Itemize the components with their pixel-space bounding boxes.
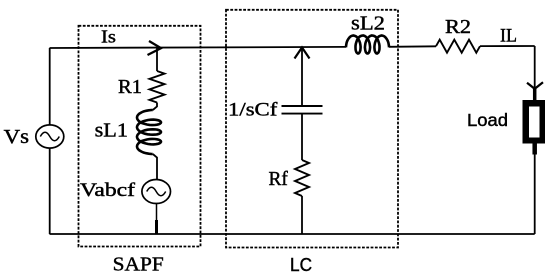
- source Vabcf: [142, 180, 171, 204]
- resistor R2: [436, 40, 480, 53]
- wire R1 to sL1: [153, 103, 157, 111]
- svg-text:LC: LC: [290, 255, 312, 275]
- svg-text:sL1: sL1: [95, 120, 128, 142]
- capacitor 1/sCf plate bottom: [282, 113, 323, 115]
- wire Rf to bottom rail: [301, 196, 303, 234]
- inductor sL1: [137, 110, 161, 154]
- wire sL1 to Vabcf: [153, 154, 157, 180]
- svg-text:IL: IL: [500, 27, 517, 47]
- svg-text:Vabcf: Vabcf: [80, 180, 136, 201]
- wire left rail lower: [49, 148, 51, 234]
- wire top right (R2 to corner): [480, 45, 535, 47]
- wire left rail upper: [49, 48, 51, 125]
- svg-text:SAPF: SAPF: [113, 254, 164, 276]
- dashed box LC: [226, 10, 398, 248]
- wire load to bottom rail: [534, 155, 536, 235]
- source Vs: [36, 125, 64, 148]
- wire right rail down to load: [534, 46, 536, 100]
- load rectangle: [523, 100, 546, 144]
- wire top middle (sL2 to R2): [389, 45, 436, 48]
- svg-text:1/sCf: 1/sCf: [228, 100, 278, 121]
- wire cap top lead: [301, 47, 303, 106]
- svg-text:Vs: Vs: [4, 127, 29, 148]
- svg-text:Rf: Rf: [269, 168, 289, 190]
- wire R1 top lead: [156, 48, 158, 71]
- wire cap to Rf: [301, 114, 303, 160]
- arrow capacitor branch (up, at top wire): [295, 48, 310, 59]
- svg-text:sL2: sL2: [351, 13, 385, 35]
- wire Vabcf to bottom rail: [156, 204, 158, 221]
- svg-text:R2: R2: [445, 16, 471, 38]
- wire top left (Vs to sL2): [50, 47, 347, 48]
- resistor R1: [150, 71, 165, 103]
- wire load bottom stub thick: [532, 144, 537, 155]
- capacitor 1/sCf plate top: [282, 105, 323, 107]
- wire bottom rail: [50, 233, 535, 235]
- svg-text:Load: Load: [467, 110, 508, 130]
- svg-text:Is: Is: [101, 27, 116, 47]
- arrow IL (current down into load): [527, 82, 543, 89]
- inductor sL2: [346, 36, 389, 54]
- wire Vabcf bottom thick stub: [155, 220, 158, 234]
- wire load top thick stub: [533, 88, 537, 100]
- arrow Is (current direction on top wire): [148, 41, 162, 55]
- svg-text:R1: R1: [118, 76, 142, 98]
- resistor Rf: [295, 160, 309, 196]
- dashed box SAPF: [79, 26, 201, 247]
